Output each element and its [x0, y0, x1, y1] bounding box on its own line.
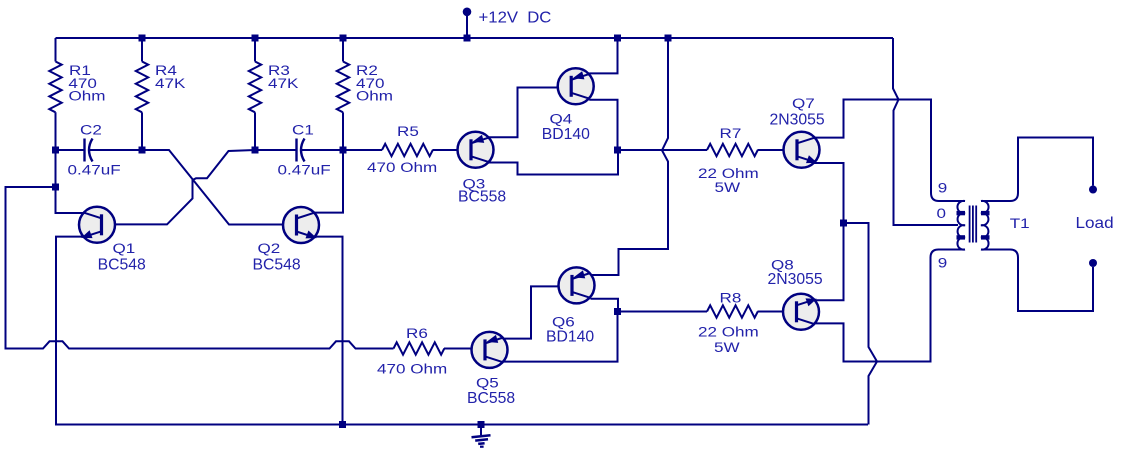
- svg-text:BC558: BC558: [458, 188, 506, 205]
- svg-text:22 Ohm: 22 Ohm: [698, 325, 759, 340]
- svg-text:BD140: BD140: [542, 126, 591, 143]
- svg-text:C1: C1: [292, 123, 314, 138]
- svg-text:Ohm: Ohm: [69, 89, 106, 104]
- svg-text:5W: 5W: [715, 180, 741, 195]
- svg-text:2N3055: 2N3055: [770, 112, 825, 129]
- svg-text:R8: R8: [720, 291, 742, 306]
- svg-text:R7: R7: [720, 126, 742, 141]
- svg-text:T1: T1: [1010, 216, 1030, 231]
- svg-text:Load: Load: [1076, 215, 1114, 232]
- svg-text:5W: 5W: [714, 340, 740, 355]
- svg-text:0: 0: [937, 207, 947, 222]
- svg-text:C2: C2: [80, 123, 102, 138]
- svg-text:9: 9: [938, 256, 948, 271]
- svg-text:Q1: Q1: [113, 241, 136, 256]
- svg-text:47K: 47K: [155, 76, 186, 91]
- svg-text:Q2: Q2: [258, 241, 281, 256]
- svg-text:BC548: BC548: [253, 256, 301, 273]
- svg-text:47K: 47K: [268, 76, 299, 91]
- svg-text:BD140: BD140: [546, 328, 595, 345]
- svg-text:0.47uF: 0.47uF: [68, 163, 121, 178]
- svg-text:+12V: +12V: [479, 9, 519, 26]
- svg-text:Q5: Q5: [476, 376, 499, 391]
- svg-text:2N3055: 2N3055: [768, 271, 823, 288]
- svg-text:BC548: BC548: [98, 256, 146, 273]
- svg-text:9: 9: [938, 181, 948, 196]
- svg-text:22 Ohm: 22 Ohm: [698, 166, 759, 181]
- svg-text:DC: DC: [527, 9, 552, 26]
- svg-text:0.47uF: 0.47uF: [278, 163, 331, 178]
- svg-text:Q4: Q4: [550, 112, 573, 127]
- svg-text:Q7: Q7: [792, 97, 815, 112]
- svg-text:470 Ohm: 470 Ohm: [367, 161, 437, 176]
- svg-text:470 Ohm: 470 Ohm: [377, 362, 447, 377]
- svg-text:R5: R5: [397, 124, 419, 139]
- svg-text:Ohm: Ohm: [356, 89, 393, 104]
- svg-text:BC558: BC558: [467, 390, 515, 407]
- svg-text:R6: R6: [406, 326, 428, 341]
